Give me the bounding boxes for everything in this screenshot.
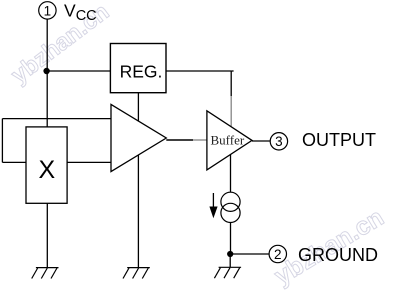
regulator REG. box xyxy=(110,44,166,93)
current direction arrow xyxy=(212,193,214,207)
pin 2 circle xyxy=(269,245,286,262)
ground under amplifier xyxy=(123,268,150,279)
ground under crystal xyxy=(32,268,59,279)
svg-text:GROUND: GROUND xyxy=(298,245,378,265)
current source I1 (two circles) xyxy=(221,192,240,211)
pin 1 circle xyxy=(39,2,56,19)
svg-text:3: 3 xyxy=(275,134,283,149)
wire amp output grey segment xyxy=(193,139,207,141)
wire REG to buffer top: horizontal xyxy=(166,70,231,72)
svg-text:OUTPUT: OUTPUT xyxy=(302,130,376,150)
wire amp input top xyxy=(2,118,111,120)
wire amp output to buffer xyxy=(166,139,193,141)
svg-text:Buffer: Buffer xyxy=(211,133,245,148)
crystal X box xyxy=(26,127,67,203)
wire amp bottom to ground xyxy=(137,155,139,268)
wire junction to pin 2 xyxy=(230,253,269,255)
svg-text:X: X xyxy=(38,156,55,184)
wire REG bottom to amplifier xyxy=(137,93,139,122)
ground under junction xyxy=(214,267,241,278)
svg-text:REG.: REG. xyxy=(120,62,163,82)
corner tick xyxy=(231,70,233,72)
wire junction to REG xyxy=(47,70,111,72)
wire junction down to ground symbol xyxy=(229,254,231,267)
svg-text:1: 1 xyxy=(44,3,52,18)
wire feedback loop left vertical xyxy=(1,119,3,163)
svg-text:2: 2 xyxy=(274,247,282,262)
wire feedback loop to crystal xyxy=(2,161,26,163)
op-amp oscillator amplifier triangle xyxy=(111,104,166,171)
wire crystal to amp input bottom xyxy=(67,161,111,163)
node junction dot VCC/REG xyxy=(43,68,49,74)
wire vertical grey segment into buffer xyxy=(230,96,232,126)
wire buffer output to pin 3 xyxy=(252,140,270,142)
wire buffer bottom to current source xyxy=(230,155,232,193)
wire current source to ground junction xyxy=(230,223,232,255)
node junction dot ground xyxy=(227,251,233,257)
pin 3 circle xyxy=(270,133,287,150)
wire VCC vertical xyxy=(46,19,48,127)
buffer triangle U2 xyxy=(207,111,252,170)
wire crystal to ground xyxy=(46,203,48,267)
wire REG to buffer top: vertical xyxy=(230,71,232,96)
